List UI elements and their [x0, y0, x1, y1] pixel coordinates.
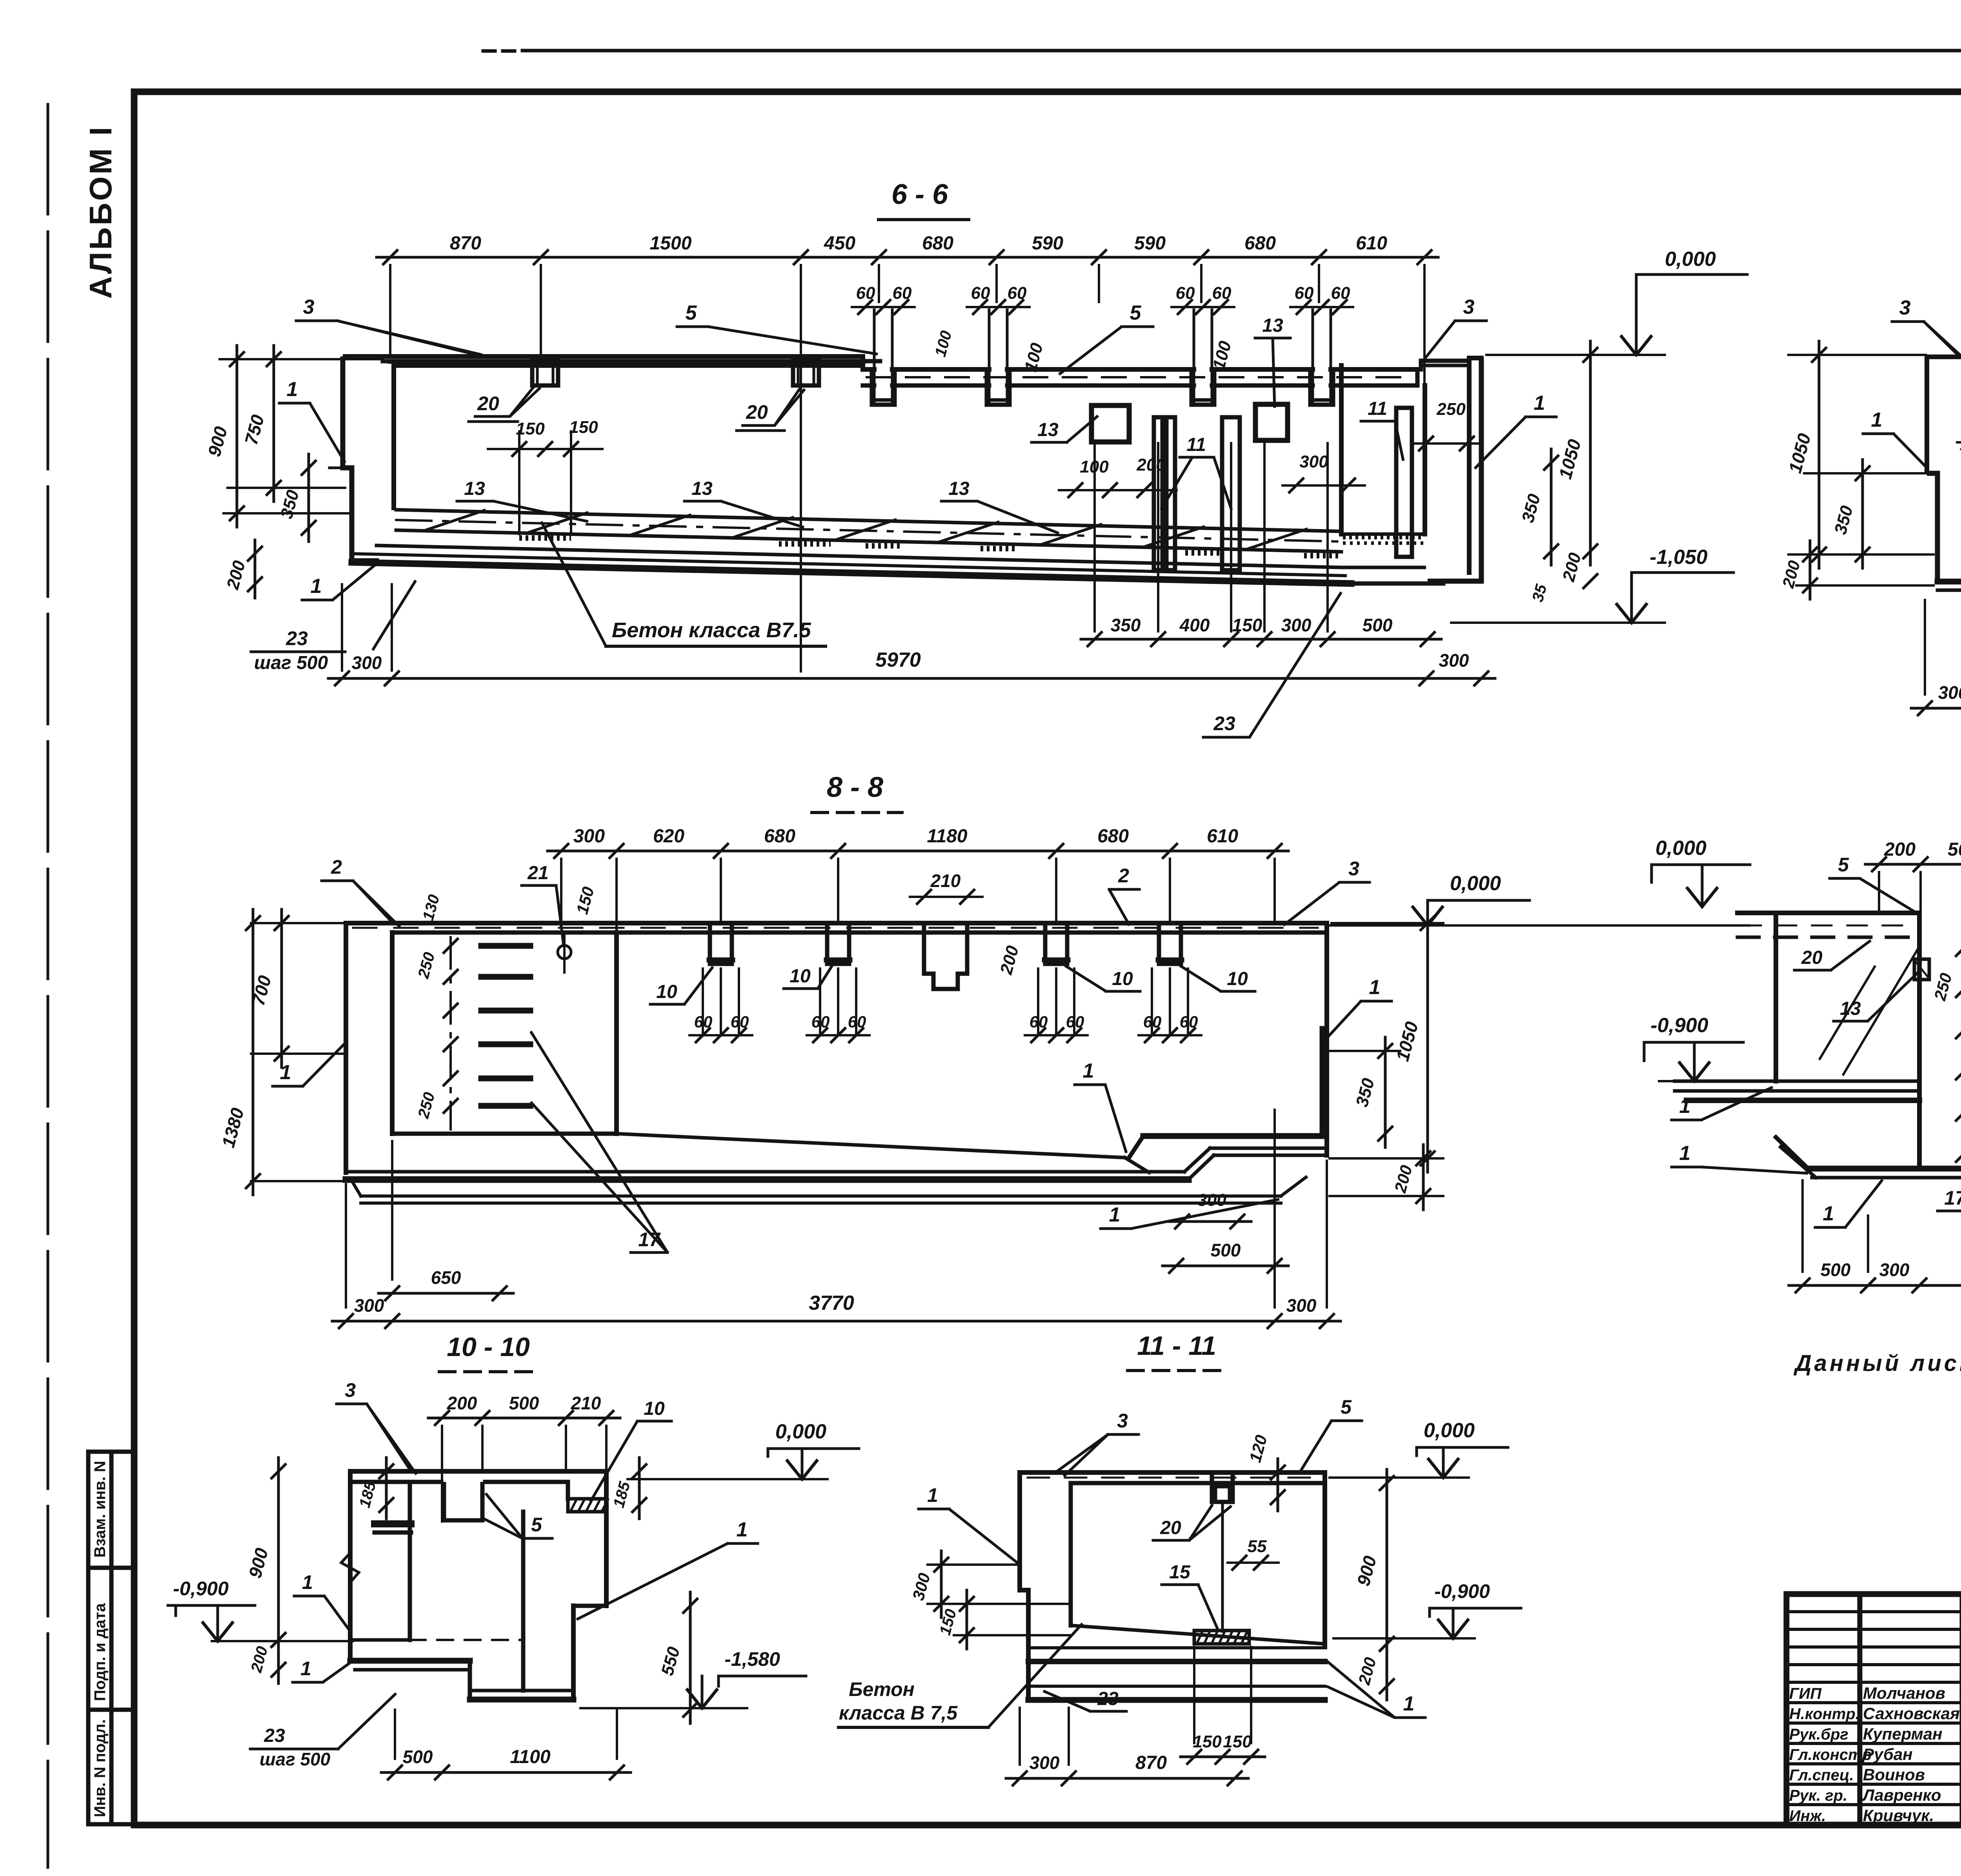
9-9 bottom dims: [1789, 1284, 1961, 1287]
svg-text:13: 13: [464, 478, 485, 499]
6-6 bottom slab lines: [377, 545, 1341, 567]
svg-text:300: 300: [354, 1295, 384, 1316]
svg-text:20: 20: [1801, 947, 1823, 968]
svg-text:610: 610: [1356, 233, 1387, 254]
svg-text:ГИП: ГИП: [1789, 1685, 1822, 1702]
svg-text:3: 3: [1117, 1410, 1128, 1432]
9-9 left wall: [1774, 913, 1778, 1081]
svg-text:60: 60: [1295, 284, 1314, 303]
svg-text:Рук.брг: Рук.брг: [1789, 1726, 1848, 1743]
svg-text:680: 680: [922, 233, 953, 254]
svg-text:Подп. и дата: Подп. и дата: [91, 1603, 109, 1701]
8-8 left wall: [344, 923, 348, 1172]
svg-text:13: 13: [1037, 420, 1059, 440]
10-10 top dims: [428, 1417, 620, 1420]
svg-text:200: 200: [447, 1393, 477, 1413]
svg-text:60: 60: [1143, 1013, 1162, 1031]
svg-text:Сахновская: Сахновская: [1863, 1704, 1960, 1723]
10-10 hatched pad right: [568, 1499, 606, 1512]
6-6 lean concrete right step: [1341, 566, 1426, 569]
svg-text:1: 1: [1871, 409, 1883, 431]
svg-text:620: 620: [653, 826, 684, 847]
6-6 left wall: [343, 354, 383, 359]
svg-text:500: 500: [1363, 615, 1393, 635]
svg-text:60: 60: [731, 1013, 749, 1031]
9-9 top dims: [1865, 863, 1961, 866]
svg-text:60: 60: [1331, 284, 1350, 303]
9-9 left slab: [1737, 911, 1919, 915]
svg-text:590: 590: [1032, 233, 1063, 254]
6-6 cols 11: [1154, 417, 1162, 570]
svg-text:400: 400: [1179, 615, 1210, 635]
svg-text:5: 5: [531, 1514, 542, 1536]
svg-text:-0,900: -0,900: [1434, 1580, 1490, 1602]
svg-text:1: 1: [737, 1518, 748, 1541]
svg-text:60: 60: [1008, 284, 1027, 303]
6-6 leader 20 right: [741, 388, 800, 425]
11-11 left vdims: [940, 1551, 943, 1618]
svg-text:300: 300: [1286, 1295, 1317, 1316]
svg-text:200: 200: [1884, 839, 1916, 860]
6-6 right vertical dims: [1589, 341, 1592, 565]
svg-text:20: 20: [477, 393, 499, 414]
10-10 slab: [350, 1469, 606, 1474]
svg-text:8 - 8: 8 - 8: [827, 772, 883, 803]
svg-text:300: 300: [1281, 615, 1312, 635]
svg-text:13: 13: [948, 478, 970, 499]
10-10 floor lines: [350, 1638, 410, 1642]
svg-text:0,000: 0,000: [1424, 1419, 1475, 1442]
svg-text:150: 150: [1232, 615, 1262, 635]
10-10 inner verticals: [408, 1482, 412, 1640]
10-10 channel: [444, 1482, 482, 1520]
11-11 bottom dims 150 150: [1181, 1756, 1265, 1758]
svg-text:0,000: 0,000: [1450, 872, 1501, 895]
svg-text:680: 680: [1244, 233, 1276, 254]
10-10 bottom tray: [350, 1658, 470, 1664]
svg-text:300: 300: [1938, 682, 1961, 703]
6-6 col right 11: [1396, 408, 1412, 557]
svg-text:10: 10: [644, 1398, 665, 1419]
svg-text:Воинов: Воинов: [1863, 1765, 1925, 1784]
svg-text:шаг 500: шаг 500: [260, 1749, 331, 1769]
svg-text:500: 500: [1821, 1260, 1851, 1280]
svg-text:150: 150: [516, 419, 545, 438]
11-11 right edge: [1322, 1472, 1327, 1647]
8-8 bottom dims: [378, 1292, 513, 1295]
svg-text:300: 300: [1299, 452, 1328, 471]
svg-text:11: 11: [1368, 398, 1387, 419]
svg-text:60: 60: [811, 1013, 830, 1031]
svg-text:300: 300: [1030, 1752, 1060, 1773]
8-8 floor slope: [617, 1134, 1125, 1158]
svg-text:60: 60: [856, 284, 875, 303]
svg-text:300: 300: [352, 653, 382, 673]
svg-text:1: 1: [1534, 392, 1545, 414]
sheet trim line top: [483, 49, 515, 53]
svg-text:870: 870: [1135, 1752, 1167, 1773]
svg-text:680: 680: [1097, 826, 1129, 847]
svg-text:Взам. инв. N: Взам. инв. N: [91, 1461, 109, 1558]
svg-text:1: 1: [1679, 1142, 1691, 1165]
9-9 pit bottom: [1808, 1166, 1961, 1172]
svg-text:Бетон класса В7.5: Бетон класса В7.5: [612, 618, 811, 642]
9-9 left floor lines: [1675, 1080, 1919, 1083]
svg-text:1: 1: [1679, 1095, 1691, 1118]
svg-text:300: 300: [1879, 1260, 1910, 1280]
svg-text:5: 5: [1130, 302, 1142, 324]
svg-text:0,000: 0,000: [775, 1420, 826, 1443]
6-6 dim 150/150: [488, 448, 602, 450]
8-8 left pit: [390, 933, 395, 1134]
svg-text:23: 23: [264, 1725, 285, 1746]
svg-text:6 - 6: 6 - 6: [891, 179, 948, 210]
11-11 inner left: [1069, 1483, 1073, 1625]
8-8 pit rungs: [481, 943, 530, 949]
svg-text:шаг 500: шаг 500: [254, 653, 328, 673]
svg-text:20: 20: [1160, 1518, 1181, 1538]
svg-text:5: 5: [1838, 854, 1849, 876]
svg-text:500: 500: [403, 1747, 433, 1767]
7-7 bottom left thick: [1937, 579, 1961, 585]
svg-text:Лавренко: Лавренко: [1862, 1786, 1941, 1804]
8-8 slot notches: [710, 923, 732, 964]
svg-text:10: 10: [789, 966, 811, 987]
svg-text:1500: 1500: [650, 233, 692, 254]
6-6 bottom dims 350 400 150 300 500: [1081, 638, 1441, 641]
svg-text:Инв. N подл.: Инв. N подл.: [91, 1719, 109, 1817]
svg-text:13: 13: [691, 478, 713, 499]
11-11 hatched pad: [1194, 1631, 1249, 1644]
svg-text:15: 15: [1169, 1562, 1191, 1583]
8-8 lean concrete: [361, 1194, 1281, 1198]
svg-text:60: 60: [848, 1013, 866, 1031]
svg-text:60: 60: [971, 284, 990, 303]
10-10 left wall: [348, 1471, 353, 1661]
svg-text:150: 150: [1193, 1732, 1222, 1751]
9-9 column: [1917, 913, 1922, 1169]
6-6 slab right part (lower band with notches): [861, 356, 865, 369]
svg-text:60: 60: [1212, 284, 1232, 303]
6-6 floor hatch band: [396, 510, 1341, 531]
11-11 slab: [1020, 1470, 1325, 1475]
svg-text:1100: 1100: [510, 1747, 551, 1767]
svg-text:-0,900: -0,900: [1650, 1014, 1708, 1037]
svg-text:60: 60: [893, 284, 912, 303]
9-9 break diagonals left of column: [1843, 949, 1918, 1074]
8-8 top dims: [548, 850, 1288, 853]
6-6 top dimension line: [377, 256, 1438, 259]
svg-text:21: 21: [527, 863, 548, 883]
8-8 right vdims: [1426, 909, 1429, 1172]
svg-text:13: 13: [1262, 315, 1283, 336]
svg-text:20: 20: [746, 401, 768, 423]
svg-text:3: 3: [345, 1379, 356, 1401]
svg-text:3: 3: [1348, 858, 1359, 880]
6-6 slab notches: [872, 369, 895, 405]
svg-text:-0,900: -0,900: [173, 1578, 229, 1600]
svg-text:210: 210: [930, 871, 961, 891]
6-6 leader 20 left: [474, 386, 534, 416]
8-8 bottom band: [346, 1170, 1184, 1174]
svg-text:300: 300: [1439, 650, 1469, 671]
svg-text:5: 5: [1341, 1396, 1352, 1418]
svg-text:55: 55: [1248, 1537, 1267, 1556]
svg-text:0,000: 0,000: [1655, 837, 1706, 860]
6-6 left wall step dims: [329, 467, 343, 469]
svg-text:Бетон: Бетон: [849, 1678, 915, 1700]
svg-text:АЛЬБОМ I: АЛЬБОМ I: [83, 125, 118, 299]
svg-text:610: 610: [1207, 826, 1238, 847]
8-8 slab: [346, 921, 1327, 925]
svg-text:500: 500: [1211, 1240, 1241, 1260]
6-6 right ledge step: [1417, 361, 1469, 385]
svg-text:Гл.констр: Гл.констр: [1789, 1746, 1872, 1763]
svg-text:Рубан: Рубан: [1863, 1745, 1913, 1763]
svg-text:Н.контр.: Н.контр.: [1789, 1705, 1860, 1723]
10-10 right vdims: [689, 1592, 692, 1723]
11-11 anchor 20: [1212, 1472, 1233, 1502]
svg-text:Рук. гр.: Рук. гр.: [1789, 1787, 1847, 1804]
svg-text:10: 10: [1227, 969, 1248, 989]
svg-text:60: 60: [1030, 1013, 1048, 1031]
svg-text:1: 1: [927, 1484, 938, 1506]
7-7 left wall lower: [1927, 473, 1937, 582]
svg-text:3770: 3770: [809, 1292, 854, 1314]
8-8 left vdims: [280, 909, 283, 1067]
svg-text:3: 3: [1899, 296, 1911, 319]
svg-text:870: 870: [450, 233, 481, 254]
11-11 floor slab lines: [1028, 1646, 1325, 1649]
7-7 bottom dims row2: [1911, 707, 1961, 710]
10-10 left vdims: [277, 1458, 280, 1654]
svg-text:1: 1: [302, 1571, 313, 1593]
11-11 floor slope: [1071, 1625, 1325, 1644]
6-6 dowel groups with 60/60 dims: [852, 306, 915, 308]
svg-text:450: 450: [824, 233, 855, 254]
6-6 bottom main dim 5970: [328, 677, 1495, 680]
svg-text:23: 23: [1213, 713, 1235, 734]
svg-text:3: 3: [303, 296, 315, 318]
6-6 anchor plates 20: [532, 360, 558, 385]
svg-text:1: 1: [1109, 1203, 1121, 1226]
svg-text:Гл.спец.: Гл.спец.: [1789, 1767, 1854, 1784]
svg-text:650: 650: [431, 1267, 461, 1288]
8-8 middle anchor: [924, 923, 967, 989]
svg-text:11 - 11: 11 - 11: [1137, 1331, 1216, 1361]
svg-text:1: 1: [1369, 976, 1381, 999]
10-10 break zigzag: [341, 1553, 359, 1582]
svg-text:5970: 5970: [875, 649, 921, 671]
svg-text:Инж.: Инж.: [1789, 1807, 1826, 1825]
svg-text:Куперман: Куперман: [1863, 1725, 1943, 1743]
svg-text:1: 1: [311, 575, 322, 598]
svg-text:класса В 7,5: класса В 7,5: [839, 1702, 958, 1724]
svg-text:500: 500: [1948, 839, 1961, 860]
svg-text:-1,050: -1,050: [1650, 546, 1708, 569]
svg-text:23: 23: [286, 627, 308, 649]
6-6 left vertical dims: [236, 345, 238, 527]
svg-text:210: 210: [571, 1393, 601, 1413]
svg-text:1180: 1180: [927, 826, 968, 847]
6-6 top dim extension lines: [389, 265, 391, 355]
svg-text:3: 3: [1463, 296, 1475, 318]
svg-text:150: 150: [1223, 1732, 1252, 1751]
11-11 center dowel: [1221, 1502, 1224, 1631]
main title block: [1786, 1594, 1961, 1825]
left attachment strip: [88, 1452, 134, 1824]
svg-text:10: 10: [1112, 969, 1133, 989]
svg-text:Данный лист см. совместно: Данный лист см. совместно с листами 26, …: [1793, 1351, 1961, 1376]
svg-text:0,000: 0,000: [1665, 248, 1716, 271]
svg-text:23: 23: [1097, 1689, 1119, 1709]
9-9 small anchor pad 13: [1914, 959, 1929, 980]
svg-text:1: 1: [300, 1658, 311, 1680]
svg-text:Молчанов: Молчанов: [1863, 1684, 1945, 1702]
7-7 body slab: [1927, 357, 1961, 473]
svg-text:200: 200: [1136, 455, 1166, 474]
svg-text:250: 250: [1436, 400, 1466, 419]
svg-text:60: 60: [694, 1013, 713, 1031]
svg-text:Кривчук.: Кривчук.: [1863, 1806, 1934, 1825]
11-11 left wall: [1020, 1472, 1028, 1700]
svg-text:60: 60: [1176, 284, 1195, 303]
svg-text:300: 300: [1197, 1191, 1226, 1210]
6-6 right pit: [1339, 365, 1344, 534]
8-8 circle 21: [558, 945, 571, 959]
svg-text:680: 680: [764, 826, 795, 847]
8-8 pit rung dim line: [449, 937, 452, 1129]
6-6 squares 13: [1091, 405, 1129, 442]
svg-text:60: 60: [1066, 1013, 1084, 1031]
svg-text:2: 2: [1118, 865, 1129, 887]
6-6 dotted pads under floor: [519, 535, 571, 541]
6-6 floor dashdot line: [396, 520, 1341, 542]
11-11 right vdims: [1386, 1469, 1388, 1658]
11-11 bottom main dims: [1006, 1777, 1248, 1780]
svg-text:10: 10: [656, 982, 677, 1002]
svg-text:1: 1: [287, 378, 298, 401]
svg-text:11: 11: [1186, 434, 1206, 455]
svg-text:5: 5: [686, 302, 697, 324]
10-10 bottom dims: [381, 1771, 631, 1774]
svg-text:10 - 10: 10 - 10: [447, 1332, 530, 1362]
svg-text:300: 300: [573, 826, 605, 847]
svg-text:2: 2: [331, 856, 342, 878]
svg-text:1: 1: [1083, 1060, 1094, 1082]
svg-text:1: 1: [1823, 1202, 1834, 1225]
svg-text:60: 60: [1180, 1013, 1198, 1031]
svg-text:1: 1: [1403, 1692, 1415, 1715]
6-6 right wall: [1467, 361, 1472, 573]
8-8 right wall: [1324, 923, 1329, 1155]
svg-text:150: 150: [569, 418, 598, 437]
7-7 left dims: [1818, 341, 1821, 568]
svg-text:-1,580: -1,580: [724, 1648, 780, 1670]
6-6 slab left part: [383, 354, 863, 359]
svg-text:17: 17: [1944, 1187, 1961, 1209]
sheet trim line left: [47, 104, 49, 1867]
svg-text:500: 500: [509, 1393, 539, 1413]
svg-text:590: 590: [1134, 233, 1166, 254]
svg-text:350: 350: [1111, 615, 1141, 635]
